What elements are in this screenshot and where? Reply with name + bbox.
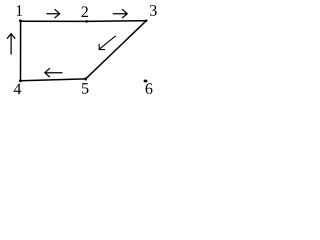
wire edge 1-2 <box>21 20 87 22</box>
node 2 vertex dot <box>86 20 88 22</box>
node 2 label <box>82 6 88 17</box>
node 6 vertex dot <box>144 80 148 83</box>
wire edge 3-5 <box>86 21 147 79</box>
arrow down-left on edge 3-5 <box>99 36 116 50</box>
node 4 label <box>14 84 21 95</box>
wire edge 2-3 <box>87 20 147 23</box>
arrow up on edge 4-1 <box>7 34 15 55</box>
arrow right on edge 2-3 <box>113 9 128 18</box>
node 5 label <box>82 83 88 94</box>
node 3 label <box>150 5 157 16</box>
node 3 vertex dot <box>145 20 147 22</box>
arrow right on edge 1-2 <box>46 9 59 18</box>
wire edge 4-1 <box>20 21 22 80</box>
node 4 vertex dot <box>19 79 22 82</box>
wire edge 4-5 <box>21 79 86 81</box>
node 6 label <box>146 83 153 94</box>
arrow left on edge 4-5 <box>45 68 63 77</box>
node 5 vertex dot <box>84 78 87 81</box>
node 1 vertex dot <box>19 20 22 23</box>
node 1 label <box>17 5 23 16</box>
